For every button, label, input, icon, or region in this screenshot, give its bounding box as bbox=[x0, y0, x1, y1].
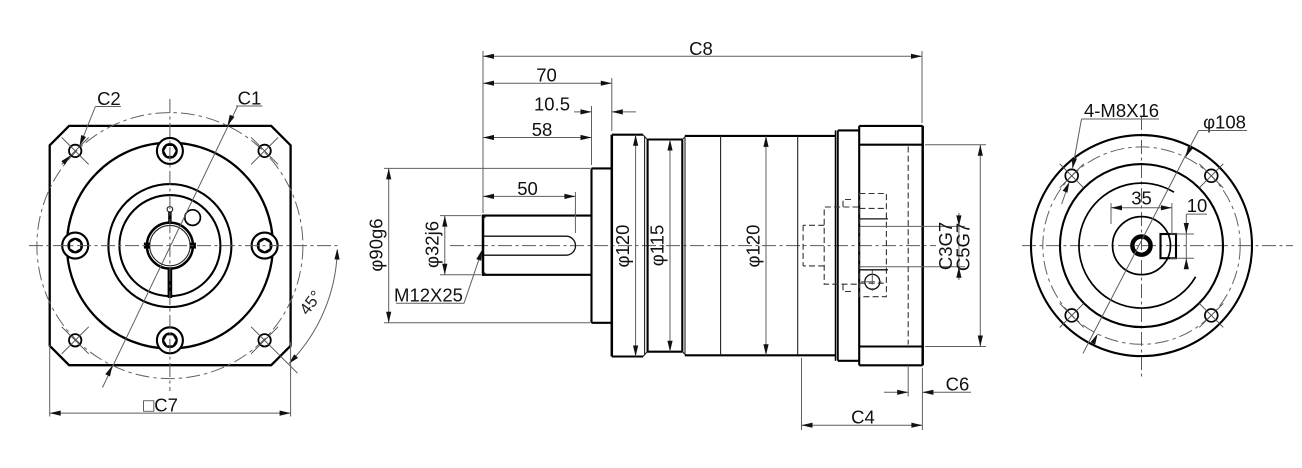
phi120 dimension line (body) bbox=[765, 136, 767, 355]
45deg dimension arc bbox=[290, 250, 337, 362]
body joint line 2 bbox=[797, 136, 799, 355]
rear view vertical centerline bbox=[1141, 116, 1143, 377]
body bottom edge bbox=[685, 354, 836, 356]
input flange top edge bbox=[859, 125, 923, 127]
svg-text:φ108: φ108 bbox=[1203, 112, 1246, 133]
phi90g6 extension bottom bbox=[384, 322, 590, 324]
groove section bottom edge bbox=[647, 351, 682, 353]
chamfer top right of groove bbox=[682, 136, 686, 140]
50 arrow right bbox=[564, 194, 575, 199]
svg-text:C4: C4 bbox=[851, 407, 875, 428]
10.5 arrow right bbox=[612, 109, 623, 114]
phi32j6 arrow bottom bbox=[442, 264, 447, 275]
svg-text:C6: C6 bbox=[946, 373, 970, 394]
chamfer top right of plate bbox=[643, 135, 647, 140]
M12X25 arrow bbox=[476, 250, 482, 261]
adapter top edge bbox=[838, 129, 859, 131]
front view top clamp slit bbox=[168, 212, 171, 225]
10.5 dimension tail left bbox=[574, 111, 592, 113]
svg-text:φ32j6: φ32j6 bbox=[422, 221, 443, 268]
rear inner circle (open arc) bbox=[1079, 183, 1196, 308]
phi108 arrow lower bbox=[1091, 334, 1098, 345]
svg-text:M12X25: M12X25 bbox=[394, 285, 463, 306]
shaft top edge bbox=[483, 215, 592, 217]
70 arrow right bbox=[601, 81, 612, 86]
svg-text:C1: C1 bbox=[238, 87, 262, 108]
phi32j6 arrow top bbox=[442, 216, 447, 227]
shaft bottom edge bbox=[483, 274, 592, 276]
M8 tapped hole bottom-right bbox=[1199, 303, 1223, 327]
socket head screw right bbox=[252, 233, 278, 259]
58 dimension line bbox=[483, 137, 592, 139]
spacer ring rear edge bbox=[837, 130, 839, 360]
phi108 leader line bbox=[1083, 131, 1199, 354]
C2 leader line bbox=[80, 107, 95, 145]
front view clamp screw hole bbox=[185, 210, 201, 226]
4-M8X16 lower tail bbox=[1062, 185, 1069, 204]
50 dimension line bbox=[483, 195, 575, 197]
pilot register top line bbox=[859, 144, 923, 146]
phi32j6 dimension line bbox=[444, 216, 446, 275]
groove right wall bbox=[681, 140, 683, 352]
socket head screw left bbox=[62, 233, 88, 259]
output boss bottom edge bbox=[592, 322, 612, 324]
coupling bore bottom line bbox=[859, 269, 888, 271]
pilot register bottom line bbox=[859, 345, 923, 347]
front view inner circle d123 bbox=[108, 184, 231, 307]
corner hole bottom-left bbox=[62, 327, 89, 354]
10.5 extension bbox=[591, 106, 593, 165]
M12X25 leader bbox=[464, 251, 482, 303]
clamp screw circle bbox=[865, 274, 880, 289]
35 extension left bbox=[1110, 203, 1112, 224]
input flange bottom edge bbox=[859, 364, 923, 366]
side view horizontal centerline bbox=[450, 245, 936, 247]
35 arrow left bbox=[1111, 205, 1122, 210]
C3G7 arrow top bbox=[956, 215, 961, 226]
C6 dimension tail right bbox=[922, 391, 971, 393]
C6 arrow right bbox=[922, 390, 933, 395]
4-M8X16 arrow bbox=[1072, 158, 1077, 169]
phi120 plate arrow top bbox=[633, 135, 638, 146]
shaft chamfer bottom bbox=[483, 272, 486, 275]
front view bore left mark bbox=[144, 243, 150, 249]
35 dimension line bbox=[1111, 207, 1172, 209]
rear hub circle bbox=[1113, 217, 1171, 275]
phi115 arrow bottom bbox=[667, 341, 672, 352]
corner hole top-left bbox=[62, 137, 89, 164]
rear pilot circle bbox=[1060, 164, 1223, 327]
keyway slot bbox=[484, 236, 576, 255]
C1 arrow upper bbox=[227, 115, 234, 126]
front view horizontal centerline bbox=[29, 245, 340, 247]
C4 arrow left bbox=[802, 423, 813, 428]
phi120 plate arrow bottom bbox=[633, 346, 638, 357]
M8 tapped hole top-right bbox=[1199, 164, 1223, 188]
35 extension right bbox=[1171, 203, 1173, 234]
10 arrow top bbox=[1184, 223, 1189, 234]
socket head screw top bbox=[157, 138, 183, 164]
front view relief hole bbox=[167, 207, 173, 213]
flange plate top edge bbox=[612, 134, 643, 136]
front view housing circle bbox=[67, 143, 273, 349]
C8 arrow left bbox=[483, 54, 494, 59]
45deg arrow bottom bbox=[289, 354, 299, 364]
corner hole bottom-right bbox=[251, 327, 297, 373]
svg-text:70: 70 bbox=[536, 65, 557, 86]
C1 leader line bbox=[103, 106, 238, 388]
front view vertical centerline bbox=[169, 99, 171, 391]
svg-text:C2: C2 bbox=[97, 88, 121, 109]
rear view horizontal centerline bbox=[1022, 245, 1293, 247]
C5G7 arrow bottom bbox=[978, 336, 983, 347]
svg-text:C8: C8 bbox=[689, 38, 713, 59]
plate right edge bbox=[644, 137, 646, 355]
svg-text:58: 58 bbox=[532, 119, 553, 140]
C3G7 arrow bottom bbox=[956, 267, 961, 278]
groove section top edge bbox=[647, 138, 682, 140]
C3G7 extension top bbox=[860, 225, 965, 227]
10.5 arrow left bbox=[581, 109, 592, 114]
4-M8X16 underline bbox=[1082, 118, 1160, 120]
C3G7 extension bottom bbox=[860, 266, 965, 268]
C7 left extension line bbox=[49, 345, 51, 417]
C4 right extension bbox=[921, 368, 923, 430]
input flange front face bbox=[858, 126, 860, 365]
58 arrow right bbox=[581, 135, 592, 140]
rear flange outer circle bbox=[1031, 135, 1252, 356]
C3G7 dimension line bbox=[958, 213, 960, 280]
svg-text:4-M8X16: 4-M8X16 bbox=[1084, 100, 1159, 121]
C5G7 dimension line bbox=[979, 145, 981, 347]
svg-text:□C7: □C7 bbox=[143, 394, 178, 415]
10.5 dimension tail right bbox=[612, 111, 636, 113]
4-M8X16 lower arrow bbox=[1063, 182, 1070, 193]
hidden notch top bbox=[843, 200, 851, 208]
10 underline bbox=[1186, 213, 1207, 215]
front view bolt-hole pitch circle (dash-dot) bbox=[37, 113, 303, 379]
70 extension bbox=[611, 78, 613, 131]
hidden bolt line in flange bbox=[907, 147, 909, 345]
phi120 body arrow bottom bbox=[763, 344, 768, 355]
body rear wall edge bbox=[684, 138, 686, 354]
C8 left extension bbox=[482, 51, 484, 213]
front view bottom clamp slit bbox=[168, 268, 173, 299]
svg-text:35: 35 bbox=[1131, 188, 1152, 209]
58 arrow left bbox=[483, 135, 494, 140]
chamfer bottom right of plate bbox=[643, 352, 647, 357]
10 extension bottom bbox=[1170, 257, 1194, 259]
C4 dimension line bbox=[802, 424, 923, 426]
phi108 arrow upper bbox=[1185, 147, 1192, 158]
rear bolt circle (dash-dot) bbox=[1043, 147, 1240, 344]
input flange rear face bbox=[921, 126, 924, 365]
phi32j6 extension top bbox=[440, 215, 481, 217]
front view bore right mark bbox=[190, 243, 196, 249]
front view shaft bore circle bbox=[147, 223, 193, 269]
adapter bottom edge bbox=[838, 360, 859, 362]
4-M8X16 leader bbox=[1073, 119, 1082, 168]
C5G7 arrow top bbox=[978, 145, 983, 156]
socket head screw bottom bbox=[157, 327, 183, 353]
M12X25 underline bbox=[396, 302, 464, 304]
svg-text:φ120: φ120 bbox=[612, 225, 633, 268]
C5G7 extension top bbox=[925, 144, 986, 146]
C8 dimension line bbox=[483, 55, 922, 57]
C7 right extension line bbox=[290, 342, 292, 417]
C2 arrow upper bbox=[80, 135, 87, 146]
C1 underline bbox=[236, 105, 263, 107]
svg-text:50: 50 bbox=[517, 178, 538, 199]
shaft end face bbox=[482, 215, 485, 276]
rear keyway bbox=[1161, 234, 1177, 258]
chamfer bottom right of groove bbox=[682, 352, 686, 356]
svg-text:φ90g6: φ90g6 bbox=[366, 218, 387, 271]
hidden coupling hub outline bbox=[859, 194, 886, 297]
C1 arrow lower bbox=[105, 366, 112, 377]
C6 arrow left bbox=[897, 390, 908, 395]
phi108 underline bbox=[1199, 130, 1248, 132]
50 arrow left bbox=[483, 194, 494, 199]
front view inner circle d101 bbox=[119, 195, 220, 296]
phi90g6 extension top bbox=[384, 167, 590, 169]
70 arrow left bbox=[483, 81, 494, 86]
svg-text:φ120: φ120 bbox=[743, 225, 764, 268]
phi90g6 dimension line bbox=[388, 168, 390, 322]
10 arrow bottom bbox=[1184, 258, 1189, 269]
output boss face bbox=[590, 168, 592, 322]
body joint line 1 bbox=[720, 136, 722, 355]
35 arrow right bbox=[1161, 205, 1172, 210]
clamp screw centerline horizontal bbox=[861, 281, 884, 283]
phi90g6 arrow bottom bbox=[386, 312, 391, 323]
C8 right extension bbox=[921, 51, 923, 123]
rear bore circle bbox=[1132, 237, 1150, 255]
svg-text:10: 10 bbox=[1187, 195, 1208, 216]
70 dimension line bbox=[483, 82, 612, 84]
C4 arrow right bbox=[911, 423, 922, 428]
flange plate bottom edge bbox=[612, 355, 643, 357]
C6 dimension tail left bbox=[884, 391, 908, 393]
groove left wall bbox=[647, 140, 649, 352]
M8 tapped hole top-left bbox=[1060, 164, 1084, 188]
phi115 arrow top bbox=[667, 140, 672, 151]
M8 tapped hole bottom-left bbox=[1060, 303, 1084, 327]
output flange face bbox=[611, 135, 614, 357]
45deg arrow top bbox=[334, 249, 339, 260]
svg-text:10.5: 10.5 bbox=[534, 93, 570, 114]
C7 arrow left bbox=[50, 411, 61, 416]
C4 left extension bbox=[801, 358, 803, 430]
10 extension top bbox=[1170, 233, 1194, 235]
C7 arrow right bbox=[280, 411, 291, 416]
front view bore thin circle bbox=[150, 225, 190, 265]
output boss top edge bbox=[592, 167, 612, 169]
C7 dimension line bbox=[50, 412, 291, 414]
corner hole top-right bbox=[251, 137, 278, 164]
hidden notch bottom bbox=[843, 284, 851, 291]
phi90g6 arrow top bbox=[386, 168, 391, 179]
hidden input shaft sleeve bbox=[803, 207, 858, 284]
svg-text:C5G7: C5G7 bbox=[953, 223, 974, 271]
phi120 dimension line (plate) bbox=[635, 135, 637, 357]
body top edge bbox=[685, 135, 836, 137]
C2 arrow lower bbox=[61, 155, 71, 165]
C6 extension line bbox=[907, 366, 909, 397]
C5G7 extension bottom bbox=[925, 346, 986, 348]
phi120 body arrow top bbox=[763, 136, 768, 147]
clamp screw centerline vertical bbox=[871, 271, 873, 294]
svg-text:φ115: φ115 bbox=[647, 225, 668, 267]
C8 arrow right bbox=[911, 54, 922, 59]
C2 underline bbox=[95, 106, 121, 108]
front view square flange outline bbox=[50, 126, 291, 365]
50 extension bbox=[574, 192, 576, 233]
spacer ring front edge bbox=[835, 130, 837, 360]
phi32j6 extension bottom bbox=[440, 274, 481, 276]
shaft chamfer top bbox=[483, 216, 486, 219]
coupling bore top line bbox=[859, 218, 888, 220]
10 dimension line bbox=[1185, 214, 1187, 268]
phi115 dimension line bbox=[669, 140, 671, 352]
